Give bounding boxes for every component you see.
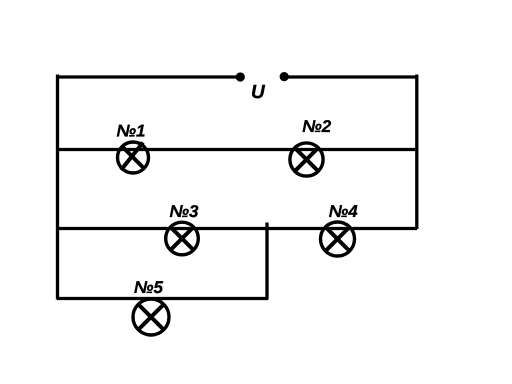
svg-text:№5: №5: [134, 278, 163, 297]
svg-text:№4: №4: [329, 202, 358, 221]
svg-text:U: U: [251, 82, 266, 103]
svg-text:№3: №3: [170, 202, 199, 221]
svg-text:№1: №1: [117, 121, 146, 140]
svg-text:№2: №2: [302, 117, 331, 136]
